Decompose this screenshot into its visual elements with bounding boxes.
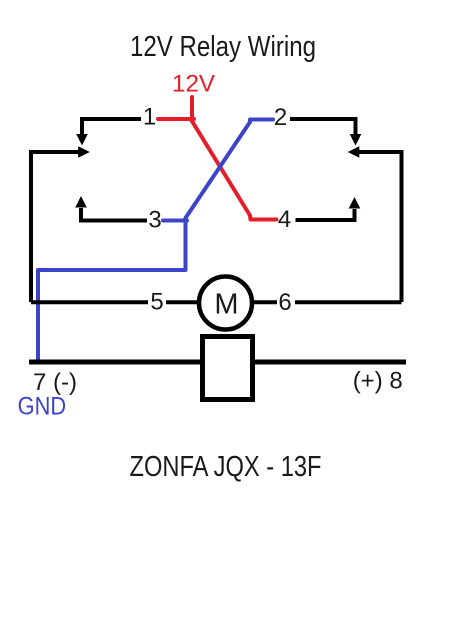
svg-text:GND: GND xyxy=(18,393,67,421)
svg-text:(+) 8: (+) 8 xyxy=(353,368,403,395)
wire terminal 1 lead with down arrow xyxy=(76,119,141,146)
wire terminal 2 lead with down arrow xyxy=(290,119,361,146)
svg-text:1: 1 xyxy=(143,104,156,131)
wire 5 to motor xyxy=(166,300,200,304)
wire left rail xyxy=(29,150,33,302)
wire red stub to pin 1 xyxy=(158,117,194,121)
svg-text:2: 2 xyxy=(274,104,287,131)
wire terminal 4 lead with up arrow xyxy=(296,197,361,220)
wire terminal 5 lead xyxy=(31,300,148,304)
svg-text:ZONFA JQX - 13F: ZONFA JQX - 13F xyxy=(130,451,322,483)
wire terminal 3 lead with up arrow xyxy=(75,196,147,221)
svg-text:12V Relay Wiring: 12V Relay Wiring xyxy=(130,31,316,63)
motor M xyxy=(199,277,252,330)
svg-text:6: 6 xyxy=(278,289,291,316)
wire right common arm with left arrow xyxy=(348,146,402,158)
wire left common arm with right arrow xyxy=(31,146,90,158)
svg-text:3: 3 xyxy=(148,207,161,234)
relay coil box xyxy=(203,337,253,400)
wire right rail xyxy=(400,150,404,302)
wire red diagonal 1-to-4 xyxy=(191,120,277,220)
svg-text:5: 5 xyxy=(150,289,163,316)
wire blue stub to pin 3 xyxy=(163,219,187,223)
svg-text:4: 4 xyxy=(278,206,291,233)
svg-text:12V: 12V xyxy=(172,71,215,98)
svg-text:M: M xyxy=(214,289,238,321)
wire motor to 6 xyxy=(252,300,277,304)
wire 12V supply drop xyxy=(190,97,194,119)
wire bottom coil rail 7-8 xyxy=(29,360,406,365)
wire blue 2-to-3-to-GND xyxy=(38,120,273,363)
wire 6 to right rail xyxy=(295,300,402,304)
